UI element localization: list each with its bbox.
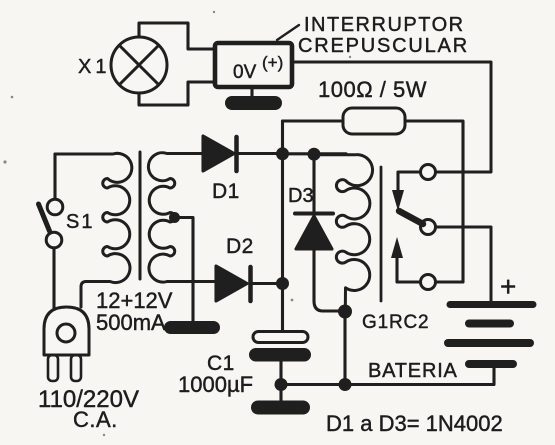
diode D2 <box>216 266 283 301</box>
wire module (+) to relay top contact <box>292 62 491 172</box>
svg-text:100Ω / 5W: 100Ω / 5W <box>318 77 427 102</box>
capacitor C1 <box>249 332 311 401</box>
junction node D3 top <box>308 148 321 161</box>
diode D1 <box>203 136 283 171</box>
wire center tap <box>175 218 194 322</box>
transformer T1 secondary coil <box>148 153 216 282</box>
diode D3 <box>295 155 340 312</box>
wire module to ground <box>250 87 253 97</box>
junction node D2 out <box>276 277 289 290</box>
relay armature pivot wire <box>398 172 421 191</box>
svg-text:CREPUSCULAR: CREPUSCULAR <box>298 35 469 57</box>
wire coil bottom to negative rail <box>343 312 346 385</box>
battery B1 <box>448 305 533 365</box>
wire node A to relay coil top <box>283 152 347 155</box>
wire S1 top to transformer primary <box>53 154 56 199</box>
relay armature blade <box>399 211 423 224</box>
wire lamp top to module <box>139 23 215 49</box>
svg-text:INTERRUPTOR: INTERRUPTOR <box>304 14 465 36</box>
wire rectifier output vertical (node A) <box>281 121 284 330</box>
wire battery minus to negative rail <box>281 368 494 385</box>
wire resistor left to node A <box>283 119 344 122</box>
svg-text:D2: D2 <box>226 235 254 258</box>
callout line <box>277 25 299 40</box>
wire resistor right to bottom contact <box>405 121 463 282</box>
svg-text:S1: S1 <box>66 211 94 233</box>
svg-text:500mA: 500mA <box>96 310 166 335</box>
relay actuation arrow up <box>391 237 421 282</box>
svg-text:D1: D1 <box>212 180 240 203</box>
svg-text:0V: 0V <box>233 62 257 83</box>
wire S1 bottom to plug <box>52 248 55 308</box>
junction coil bottom <box>338 305 352 319</box>
plug P1 <box>44 307 89 381</box>
relay contact bottom <box>421 275 436 290</box>
resistor R1 100ohm/5W <box>343 108 405 134</box>
relay contact middle <box>421 220 436 235</box>
module U1 (interruptor crepuscular) box <box>215 43 292 87</box>
svg-text:+: + <box>500 271 516 302</box>
switch S1 <box>39 199 63 248</box>
transformer core <box>139 152 142 279</box>
ground (center tap) <box>164 321 220 334</box>
scan speckles <box>3 11 351 436</box>
junction center tap <box>169 212 180 223</box>
junction node A (D1) <box>276 147 289 160</box>
ground (module) <box>225 96 282 110</box>
svg-text:X1: X1 <box>78 56 110 78</box>
svg-text:D3: D3 <box>288 185 314 207</box>
junction negative rail C1 <box>275 378 288 391</box>
relay contact top <box>421 165 436 180</box>
svg-text:(+): (+) <box>262 53 283 72</box>
relay armature arrow down <box>392 190 404 211</box>
relay core line <box>380 167 383 301</box>
wire middle contact to battery plus <box>436 227 492 301</box>
transformer T1 primary coil <box>55 153 132 307</box>
svg-text:G1RC2: G1RC2 <box>362 312 429 333</box>
relay coil G1RC2 <box>320 155 373 312</box>
wire lamp bottom to module <box>139 82 215 105</box>
lamp X1 <box>111 37 167 93</box>
svg-text:C.A.: C.A. <box>73 407 118 432</box>
svg-text:1000µF: 1000µF <box>178 372 253 397</box>
junction negative rail coil <box>339 378 352 391</box>
svg-text:BATERIA: BATERIA <box>368 360 458 382</box>
ground (C1) <box>251 401 310 415</box>
svg-text:D1 a D3= 1N4002: D1 a D3= 1N4002 <box>326 411 503 436</box>
